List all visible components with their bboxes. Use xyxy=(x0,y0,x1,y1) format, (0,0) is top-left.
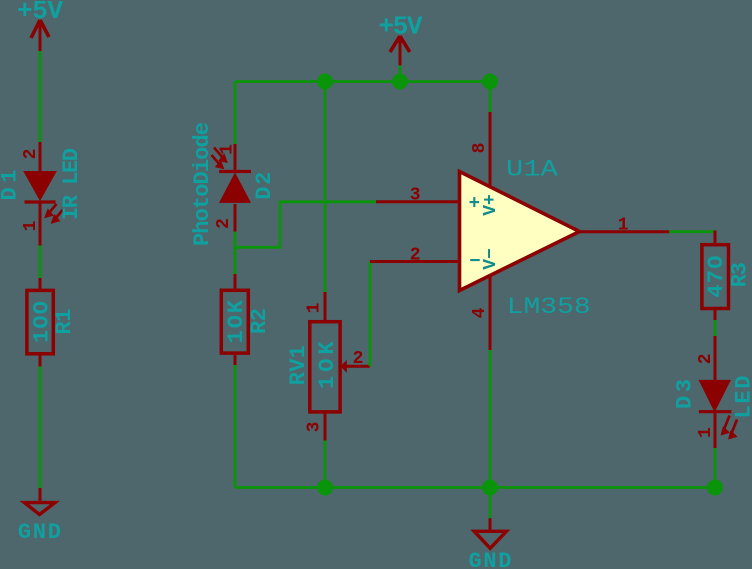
photodiode D2 xyxy=(190,122,277,246)
pin 8 wire from rail xyxy=(489,82,492,113)
wire +5V symbol to rail xyxy=(399,65,402,82)
pin 1 stub of D1 xyxy=(39,204,42,246)
R1 bottom stub xyxy=(39,354,42,367)
svg-text:2: 2 xyxy=(696,353,716,364)
D3 emission arrow a xyxy=(722,416,737,438)
ground (middle) xyxy=(469,518,512,569)
resistor R3 xyxy=(702,231,752,321)
potentiometer RV1 xyxy=(286,292,370,441)
R2 bottom stub xyxy=(234,353,237,365)
svg-text:1: 1 xyxy=(21,220,41,231)
bottom rail wire xyxy=(235,486,715,489)
R1 top stub xyxy=(39,278,42,290)
svg-text:2: 2 xyxy=(353,349,364,369)
R2 body xyxy=(221,290,248,353)
svg-text:1OK: 1OK xyxy=(224,299,249,343)
pin 8 stub xyxy=(489,112,492,188)
svg-text:2: 2 xyxy=(410,246,421,266)
pin 1 stub of D3 xyxy=(714,413,717,448)
wire rail to GND symbol xyxy=(489,488,492,519)
pin 2 stub of D3 xyxy=(714,336,717,380)
svg-text:RV1: RV1 xyxy=(286,345,311,385)
wire op-amp output to R3 xyxy=(669,230,715,233)
junction dot rail/RV1 xyxy=(317,74,333,90)
svg-text:47O: 47O xyxy=(704,256,729,298)
pin 2 stub of D1 xyxy=(39,142,42,172)
pin 1 stub (output) xyxy=(580,230,670,233)
svg-text:R3: R3 xyxy=(728,262,752,287)
pin 3 stub xyxy=(376,200,460,203)
svg-text:V+: V+ xyxy=(481,194,501,216)
svg-text:R1: R1 xyxy=(52,309,77,335)
wire D2 to R2 and branch xyxy=(234,232,237,274)
pin 1 stub of D2 xyxy=(234,144,237,172)
op-amp U1A xyxy=(370,82,669,488)
+5V arrow symbol (middle) xyxy=(390,36,410,52)
wire rail to D2 xyxy=(234,82,237,145)
svg-text:V−: V− xyxy=(481,248,501,270)
junction dot D3/bottom rail xyxy=(707,480,723,496)
D2 triangle body (apex up) xyxy=(220,174,250,203)
svg-text:1: 1 xyxy=(618,215,629,235)
wire R1 to GND xyxy=(39,367,42,489)
svg-text:GND: GND xyxy=(18,520,61,545)
svg-text:4: 4 xyxy=(470,307,490,318)
power +5V (left) xyxy=(17,0,63,51)
resistor R2 xyxy=(221,274,272,365)
U1A triangle body xyxy=(460,172,580,291)
D3 emission arrow b xyxy=(732,420,738,434)
R2 top stub xyxy=(234,274,237,290)
R3 body xyxy=(702,245,729,309)
svg-text:LED: LED xyxy=(732,376,752,419)
svg-text:+: + xyxy=(469,193,480,215)
svg-text:3: 3 xyxy=(410,186,421,206)
power +5V (middle) xyxy=(379,12,423,83)
svg-text:IR LED: IR LED xyxy=(59,148,84,220)
wire branch to op-amp pin 3 xyxy=(235,202,376,248)
wire +5V to D1 xyxy=(39,51,42,142)
junction dot RV1/bottom rail xyxy=(317,480,333,496)
svg-text:2: 2 xyxy=(21,149,41,160)
RV1 pin 1 stub xyxy=(324,292,327,322)
D2 cathode bar xyxy=(219,170,251,173)
D1 cathode bar xyxy=(25,200,56,203)
svg-text:R2: R2 xyxy=(247,308,272,334)
svg-text:D2: D2 xyxy=(252,172,277,200)
D2 incoming light arrow b xyxy=(212,155,220,164)
D1 emission arrow a xyxy=(46,204,63,222)
wire D1 to R1 xyxy=(39,246,42,279)
svg-text:1: 1 xyxy=(696,427,716,438)
junction dot rail/+5V xyxy=(392,74,408,90)
R3 top stub xyxy=(714,231,717,245)
svg-text:LM358: LM358 xyxy=(507,294,591,320)
resistor R1 xyxy=(27,278,77,367)
svg-text:−: − xyxy=(469,251,480,273)
svg-text:GND: GND xyxy=(469,549,512,569)
+5V arrow symbol (left) xyxy=(31,20,49,38)
pin 4 stub xyxy=(489,276,492,351)
RV1 body xyxy=(310,322,340,412)
top power rail wire xyxy=(235,80,490,83)
RV1 wiper arrow xyxy=(341,360,347,373)
svg-text:1: 1 xyxy=(305,302,325,313)
R1 body xyxy=(27,290,53,353)
svg-text:PhotoDiode: PhotoDiode xyxy=(190,122,215,246)
pin 2 stub of D2 xyxy=(234,204,237,232)
junction dot rail/pin8 xyxy=(482,74,498,90)
svg-text:U1A: U1A xyxy=(506,156,558,183)
D3 cathode bar xyxy=(699,410,731,413)
svg-text:1OO: 1OO xyxy=(30,301,55,343)
wire R2 to bottom rail xyxy=(234,365,237,488)
RV1 pin 3 stub xyxy=(324,412,327,441)
D3 triangle body xyxy=(699,380,730,411)
wire wiper to op-amp pin 2 xyxy=(369,262,372,367)
junction dot GND/bottom rail xyxy=(482,480,498,496)
svg-text:1OK: 1OK xyxy=(315,341,340,389)
diode D1 IR LED xyxy=(0,142,84,246)
D1 emission arrow b xyxy=(55,210,63,220)
wire RV1 pin3 to bottom rail xyxy=(324,441,327,488)
svg-text:2: 2 xyxy=(214,218,234,229)
svg-text:8: 8 xyxy=(470,143,490,154)
D2 incoming light arrow a xyxy=(212,148,226,168)
wire rail to RV1 pin1 (crosses pin3 wire) xyxy=(324,82,327,293)
svg-text:3: 3 xyxy=(305,422,325,433)
R3 bottom stub xyxy=(714,309,717,321)
D1 triangle body xyxy=(24,172,56,201)
wire pin 4 to bottom rail xyxy=(489,350,492,488)
wire D3 to bottom rail xyxy=(714,448,717,488)
diode D3 LED xyxy=(673,336,752,448)
ground (left) xyxy=(18,488,61,545)
pin 2 stub xyxy=(370,260,460,263)
wire R3 to D3 xyxy=(714,320,717,336)
